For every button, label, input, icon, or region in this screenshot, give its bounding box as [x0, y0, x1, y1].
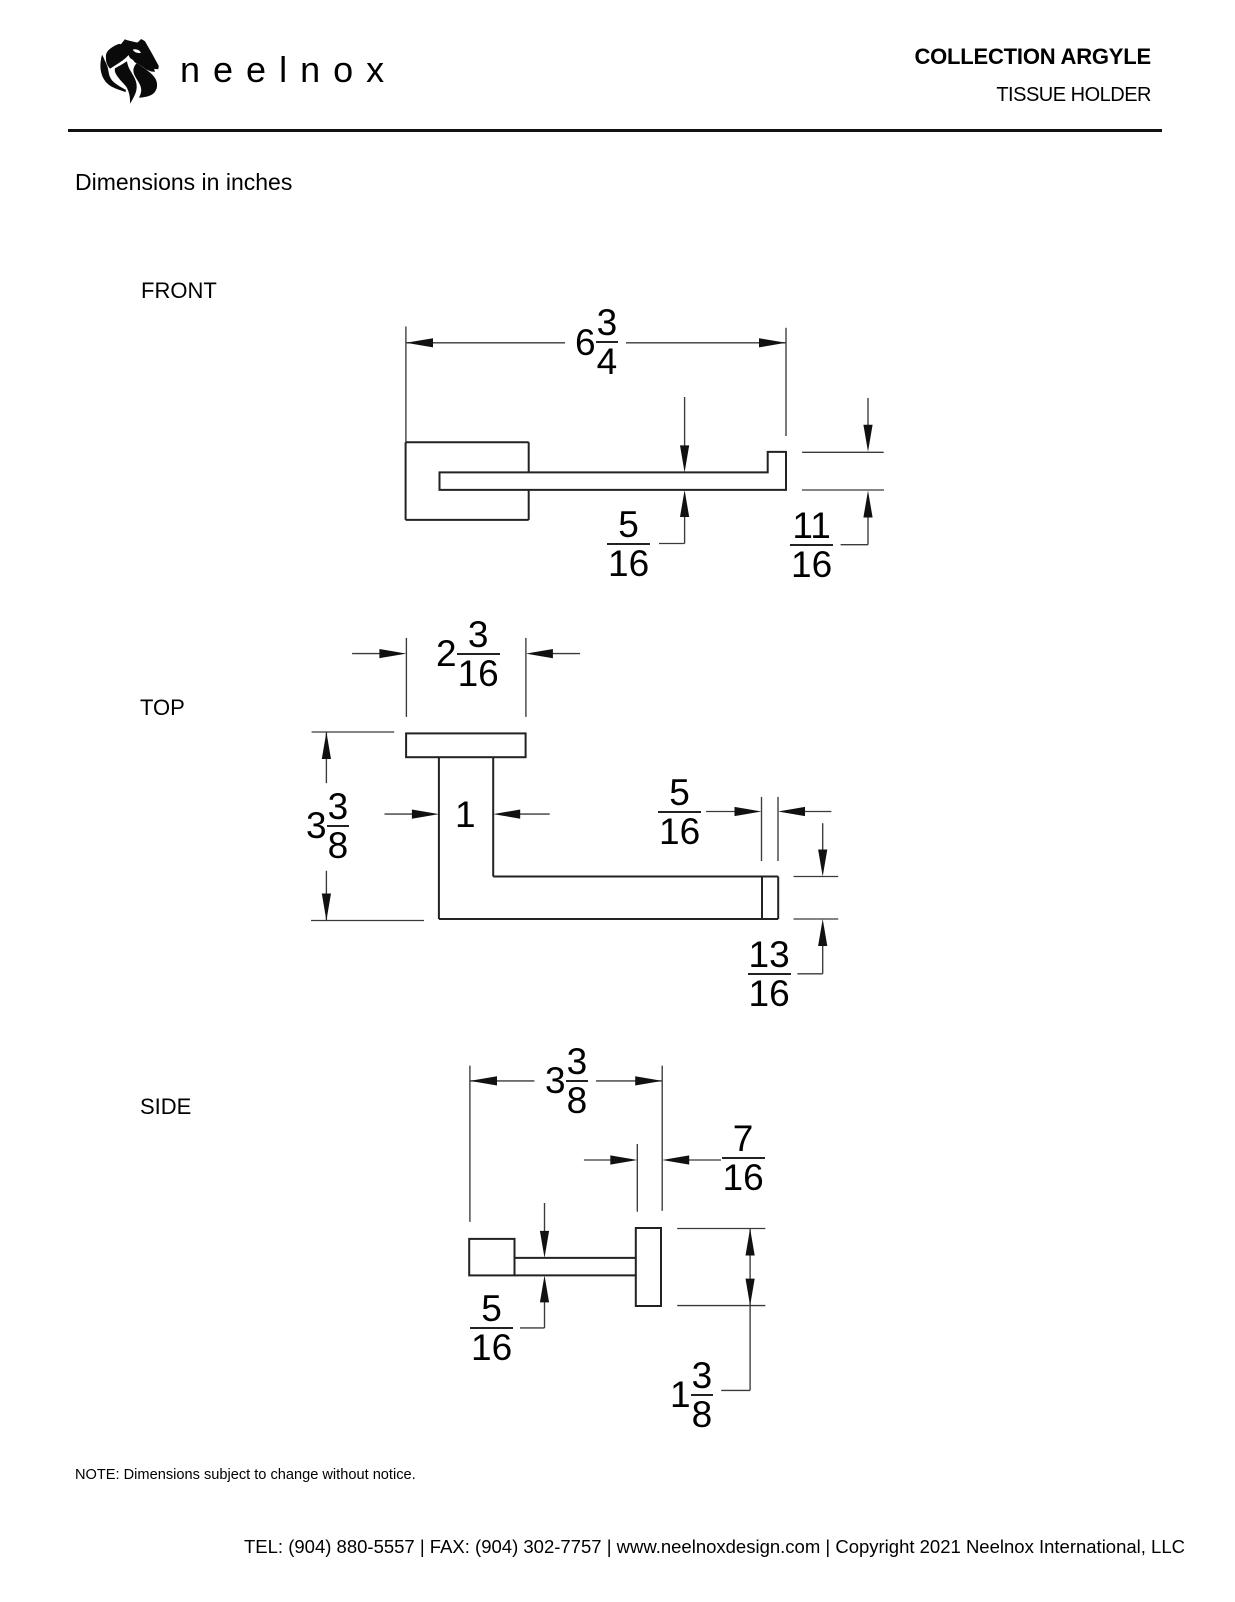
note — [75, 1468, 416, 1483]
caption Dimensions in inches — [75, 171, 292, 194]
top post right edge — [492, 757, 494, 876]
top dim 1 tails — [385, 813, 413, 815]
front dim 5/16 elbow — [659, 543, 685, 545]
top dim 5/16 ext lines — [761, 797, 763, 861]
side dim 5/16 arrows — [544, 1203, 546, 1231]
top bar top edge — [493, 876, 778, 878]
front dim 5/16 arrows — [684, 397, 686, 446]
front 6-3/4 arrowheads — [406, 338, 433, 347]
top dim 2-3/16 ext lines — [405, 638, 407, 717]
side dim 7/16 tails — [584, 1159, 611, 1161]
side dim label 3 3/8 — [545, 1043, 588, 1119]
side dim label 7/16 — [722, 1120, 765, 1196]
front dim 11/16 ext lines — [802, 451, 884, 453]
top dim 2-3/16 tails — [352, 653, 380, 655]
front dim 6-3/4 ext right — [785, 328, 787, 436]
front dim 11/16 arrows — [867, 398, 869, 426]
side arm top edge — [515, 1257, 636, 1259]
side 7/16 arrowheads — [610, 1155, 637, 1164]
top dim label 3 3/8 — [306, 788, 349, 864]
top dim 13/16 ext lines — [794, 876, 839, 878]
top plate — [406, 733, 525, 757]
label FRONT — [141, 280, 217, 302]
top 3-3/8 arrowheads — [322, 732, 331, 759]
side plate — [469, 1239, 514, 1276]
side 1-3/8 arrowheads — [746, 1229, 755, 1256]
title COLLECTION ARGYLE — [914, 46, 1151, 68]
front plate — [406, 441, 529, 443]
top 2-3/16 arrowheads — [379, 649, 406, 658]
front 5/16 arrowheads — [680, 445, 689, 472]
logo wordmark neelnox — [180, 52, 397, 88]
footer — [244, 1538, 1185, 1557]
top 1 arrowheads — [412, 810, 439, 819]
front dim label 5/16 — [607, 506, 650, 582]
front bar with hook — [440, 452, 787, 490]
top bar end cap inner edge — [761, 877, 763, 920]
top dim label 2 3/16 — [436, 616, 500, 692]
front 11/16 arrowheads — [863, 425, 872, 452]
top 5/16 arrowheads — [735, 807, 762, 816]
side 3-3/8 arrowheads — [470, 1076, 497, 1085]
front dim label 6 3/4 — [575, 304, 618, 380]
side disc — [636, 1228, 661, 1306]
side dim 3-3/8 line — [470, 1080, 535, 1082]
front dim 11/16 elbow — [841, 544, 868, 546]
side dim label 1 3/8 — [670, 1357, 713, 1433]
side dim 5/16 elbow — [520, 1327, 545, 1329]
top dim label 13/16 — [748, 936, 791, 1012]
top bar right edge — [777, 877, 779, 920]
top dim 13/16 elbow — [797, 973, 822, 975]
side dim 1-3/8 elbow — [721, 1389, 750, 1391]
top dim 3-3/8 ext lines — [312, 731, 395, 733]
top dim 5/16 tails — [706, 811, 735, 813]
top dim 3-3/8 line — [325, 732, 327, 783]
logo horse head — [100, 39, 168, 105]
front dim 6-3/4 ext left — [405, 327, 407, 443]
top bar bottom edge — [439, 918, 778, 920]
side 5/16 arrowheads — [540, 1231, 549, 1258]
label SIDE — [140, 1096, 191, 1118]
side dim 1-3/8 line — [749, 1229, 751, 1391]
subtitle TISSUE HOLDER — [996, 85, 1151, 105]
top dim 13/16 arrows — [822, 823, 824, 850]
top dim label 5/16 — [658, 774, 701, 850]
side dim 7/16 ext line — [636, 1144, 638, 1212]
side dim 1-3/8 ext lines — [677, 1228, 765, 1230]
front dim 6-3/4 line — [406, 342, 565, 344]
side dim label 5/16 — [470, 1290, 513, 1366]
side arm bottom edge — [515, 1274, 636, 1276]
top post left edge — [438, 757, 440, 919]
header rule — [68, 129, 1162, 132]
top 13/16 arrowheads — [818, 850, 827, 877]
side dim 3-3/8 ext lines — [469, 1066, 471, 1222]
top dim label 1 — [455, 796, 476, 833]
front dim label 11/16 — [790, 507, 833, 583]
label TOP — [140, 697, 185, 719]
